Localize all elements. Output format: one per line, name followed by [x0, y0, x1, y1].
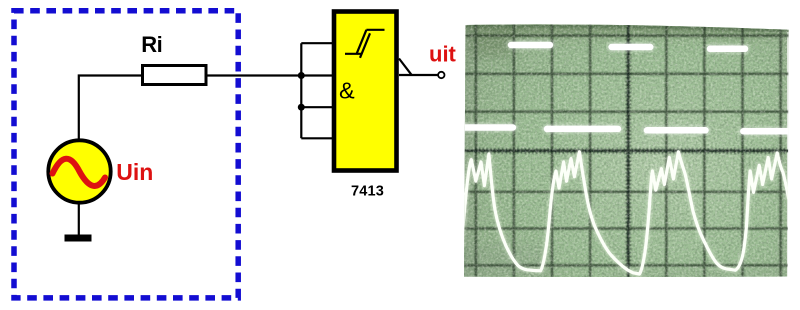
svg-text:Ri: Ri	[141, 32, 162, 57]
svg-text:Uin: Uin	[116, 159, 153, 185]
svg-text:uit: uit	[429, 42, 457, 67]
svg-text:7413: 7413	[351, 184, 384, 200]
svg-text:&: &	[339, 78, 355, 104]
